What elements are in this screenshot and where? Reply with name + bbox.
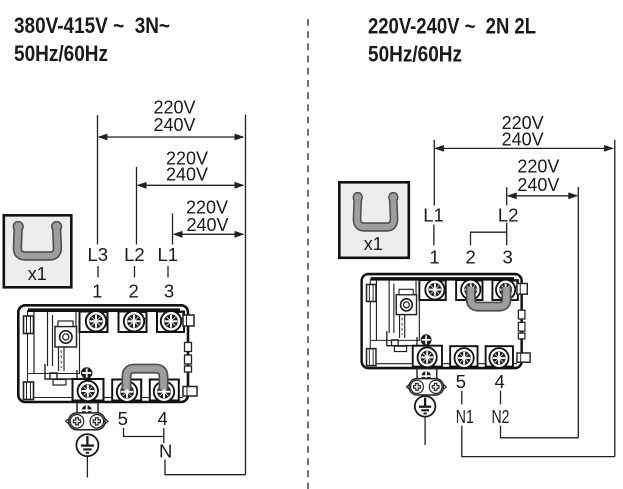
- jumper kit box x1 (left): [4, 215, 72, 287]
- bracket joining 5 and 4 to N: [124, 428, 164, 443]
- wire N1 to far right reference: [462, 426, 615, 457]
- extension line L1: [172, 214, 174, 245]
- svg-text:N1: N1: [456, 406, 474, 427]
- terminal block (left): [18, 305, 197, 429]
- reference line N (left, right side): [245, 115, 247, 475]
- wire N2 to reference: [501, 426, 579, 438]
- svg-text:L2: L2: [498, 205, 519, 226]
- svg-text:4: 4: [157, 408, 167, 429]
- dimension arrow L2-N: [137, 182, 245, 189]
- jumper bridge terminals 2-3 (right block): [471, 287, 507, 307]
- tick under L3: [97, 266, 99, 278]
- jumper kit box x1 (right): [339, 182, 409, 257]
- wire N to reference line: [165, 460, 246, 475]
- svg-text:50Hz/60Hz: 50Hz/60Hz: [368, 42, 462, 67]
- earth symbol (right): [415, 396, 436, 417]
- dimension arrow L3-N: [98, 134, 245, 141]
- svg-text:5: 5: [456, 371, 466, 392]
- svg-text:50Hz/60Hz: 50Hz/60Hz: [14, 41, 108, 66]
- svg-text:N2: N2: [492, 406, 510, 427]
- tick under L1 (right): [433, 225, 435, 246]
- svg-text:380V-415V ~ 3N~: 380V-415V ~ 3N~: [14, 13, 170, 38]
- svg-text:x1: x1: [28, 264, 47, 284]
- svg-text:1: 1: [429, 247, 439, 268]
- svg-text:5: 5: [118, 408, 128, 429]
- dimension arrow L1-N: [173, 231, 245, 238]
- extension line L2 (right): [506, 187, 508, 206]
- svg-text:1: 1: [92, 281, 102, 302]
- bracket L2 to terminals 2 and 3: [471, 223, 507, 246]
- svg-text:3: 3: [164, 281, 174, 302]
- earth symbol (left): [76, 434, 98, 456]
- svg-text:240V: 240V: [186, 215, 228, 235]
- svg-text:3: 3: [502, 247, 512, 268]
- extension line L1 (right): [433, 140, 435, 206]
- svg-text:L1: L1: [423, 205, 444, 226]
- jumper bridge terminals 5-4 (left block): [127, 369, 164, 390]
- svg-text:4: 4: [494, 371, 504, 392]
- earth wire (left): [86, 456, 88, 477]
- earth wire (right): [424, 417, 426, 445]
- svg-text:240V: 240V: [502, 130, 544, 150]
- reference line N1 (far right): [614, 140, 616, 457]
- svg-text:N: N: [159, 441, 172, 462]
- dashed separator line: [307, 19, 309, 489]
- svg-text:240V: 240V: [166, 165, 208, 185]
- tick under L2: [134, 266, 136, 278]
- svg-text:240V: 240V: [153, 115, 195, 135]
- reference line N2: [577, 187, 579, 438]
- terminal block (right): [362, 274, 531, 395]
- dimension arrow L2-N2: [507, 192, 579, 199]
- svg-text:2: 2: [465, 247, 475, 268]
- svg-text:2: 2: [128, 281, 138, 302]
- svg-text:L2: L2: [124, 244, 145, 265]
- svg-text:L1: L1: [158, 244, 179, 265]
- tick under 4 (right): [500, 391, 502, 405]
- svg-text:L3: L3: [88, 244, 109, 265]
- extension line L2: [136, 167, 138, 245]
- dimension arrow L1-N1: [434, 145, 614, 152]
- svg-text:220V: 220V: [517, 157, 559, 177]
- tick under L1: [167, 266, 169, 278]
- svg-text:240V: 240V: [517, 175, 559, 195]
- tick under 5 (right): [461, 391, 463, 405]
- svg-text:220V-240V ~ 2N 2L: 220V-240V ~ 2N 2L: [368, 14, 536, 39]
- extension line L3: [97, 115, 99, 245]
- svg-text:x1: x1: [364, 234, 383, 254]
